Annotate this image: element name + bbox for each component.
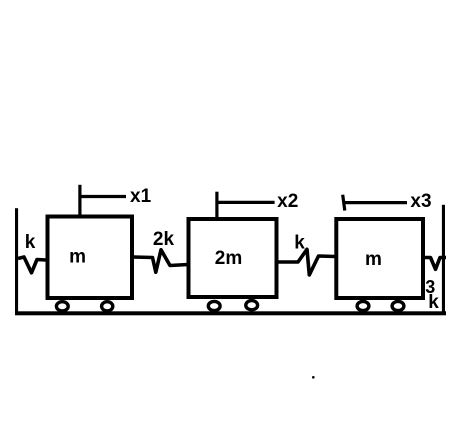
svg-text:2k: 2k [153, 229, 175, 250]
svg-text:2m: 2m [215, 248, 242, 269]
svg-text:x2: x2 [277, 191, 298, 212]
svg-text:x1: x1 [130, 186, 152, 207]
svg-text:m: m [69, 247, 86, 268]
svg-text:x3: x3 [410, 191, 431, 212]
svg-text:k: k [25, 232, 36, 253]
svg-text:k: k [294, 232, 305, 253]
svg-text:m: m [365, 249, 382, 270]
svg-text:k: k [428, 292, 439, 313]
